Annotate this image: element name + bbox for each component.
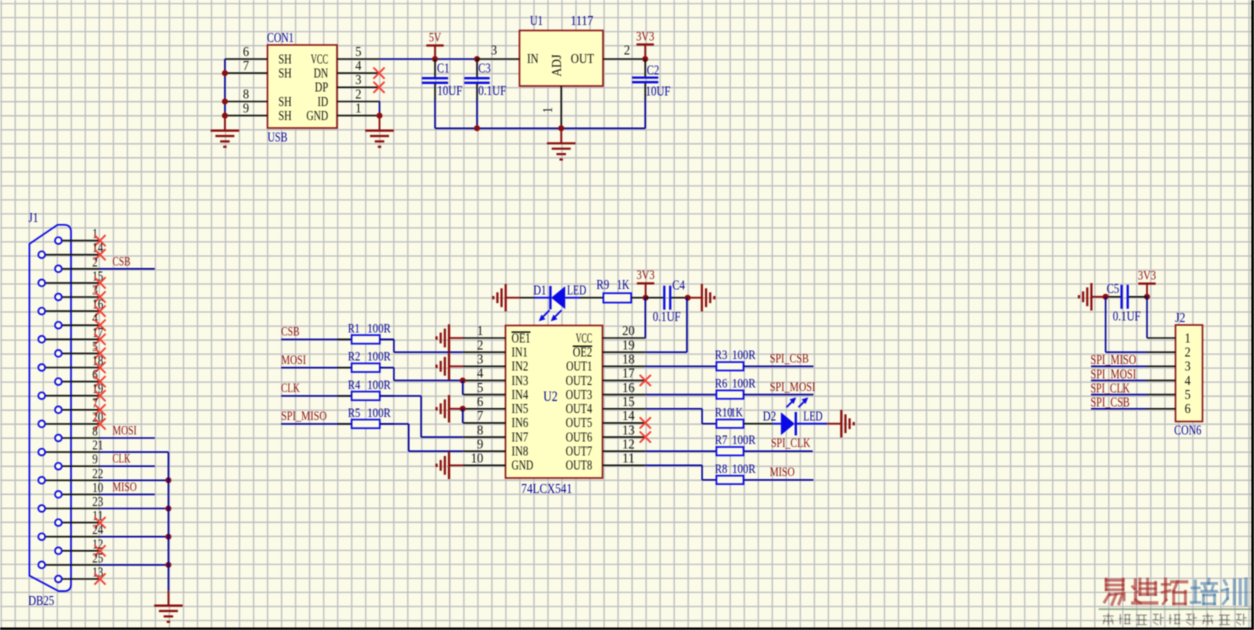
svg-text:CLK: CLK bbox=[113, 452, 131, 466]
svg-text:6: 6 bbox=[477, 394, 484, 409]
svg-text:DP: DP bbox=[315, 80, 328, 95]
svg-text:2: 2 bbox=[92, 254, 98, 269]
svg-text:2: 2 bbox=[624, 43, 630, 58]
svg-text:8: 8 bbox=[243, 86, 249, 101]
svg-text:6: 6 bbox=[1185, 402, 1191, 417]
svg-text:100R: 100R bbox=[367, 406, 391, 420]
svg-text:SPI_MISO: SPI_MISO bbox=[1091, 352, 1137, 367]
svg-text:100R: 100R bbox=[367, 321, 391, 335]
svg-text:0.1UF: 0.1UF bbox=[1113, 308, 1141, 323]
svg-text:OUT1: OUT1 bbox=[566, 359, 592, 374]
svg-text:OUT7: OUT7 bbox=[566, 444, 593, 459]
svg-text:SPI_CSB: SPI_CSB bbox=[770, 351, 809, 366]
svg-text:1: 1 bbox=[92, 226, 98, 241]
svg-text:OUT: OUT bbox=[571, 51, 594, 66]
svg-text:LED: LED bbox=[567, 283, 586, 298]
svg-text:12: 12 bbox=[622, 436, 635, 451]
svg-text:19: 19 bbox=[622, 337, 635, 352]
svg-text:8: 8 bbox=[477, 422, 484, 437]
svg-text:MISO: MISO bbox=[113, 480, 137, 494]
svg-text:IN1: IN1 bbox=[512, 344, 528, 359]
svg-text:5: 5 bbox=[1185, 388, 1191, 403]
svg-text:IN2: IN2 bbox=[512, 359, 529, 374]
svg-text:2: 2 bbox=[477, 337, 483, 352]
svg-text:R5: R5 bbox=[348, 406, 360, 420]
svg-text:OUT6: OUT6 bbox=[566, 429, 593, 444]
svg-text:SPI_CSB: SPI_CSB bbox=[1091, 395, 1130, 410]
svg-text:LED: LED bbox=[803, 408, 822, 423]
svg-text:6: 6 bbox=[243, 44, 249, 59]
svg-text:100R: 100R bbox=[367, 378, 391, 392]
svg-text:J2: J2 bbox=[1175, 310, 1185, 325]
svg-text:CSB: CSB bbox=[281, 325, 299, 339]
svg-text:4: 4 bbox=[477, 366, 484, 381]
svg-text:10UF: 10UF bbox=[437, 83, 462, 98]
svg-text:5: 5 bbox=[477, 380, 484, 395]
svg-text:100R: 100R bbox=[732, 377, 756, 391]
svg-text:IN: IN bbox=[527, 51, 539, 66]
svg-text:DN: DN bbox=[314, 65, 329, 80]
svg-text:SPI_MOSI: SPI_MOSI bbox=[770, 379, 816, 394]
svg-text:MISO: MISO bbox=[770, 464, 795, 479]
svg-text:SH: SH bbox=[278, 51, 292, 66]
svg-text:1K: 1K bbox=[617, 277, 630, 292]
svg-text:U2: U2 bbox=[543, 389, 557, 405]
svg-text:OUT2: OUT2 bbox=[566, 373, 593, 388]
svg-text:1: 1 bbox=[540, 107, 555, 113]
svg-text:13: 13 bbox=[622, 422, 635, 437]
svg-text:20: 20 bbox=[622, 323, 635, 338]
svg-text:IN5: IN5 bbox=[512, 401, 529, 416]
svg-text:MOSI: MOSI bbox=[113, 424, 137, 438]
svg-text:16: 16 bbox=[622, 380, 635, 395]
svg-text:OUT8: OUT8 bbox=[566, 458, 593, 473]
svg-text:C3: C3 bbox=[478, 61, 491, 76]
svg-text:SH: SH bbox=[278, 94, 292, 109]
svg-text:1: 1 bbox=[477, 323, 483, 338]
svg-text:CON6: CON6 bbox=[1174, 422, 1201, 437]
svg-text:ADJ: ADJ bbox=[549, 54, 564, 76]
svg-text:0.1UF: 0.1UF bbox=[478, 83, 506, 98]
svg-text:USB: USB bbox=[268, 130, 288, 145]
svg-text:7: 7 bbox=[477, 408, 484, 423]
svg-text:SH: SH bbox=[278, 108, 292, 123]
svg-text:2: 2 bbox=[355, 86, 361, 101]
svg-text:R1: R1 bbox=[348, 321, 360, 335]
svg-text:ID: ID bbox=[317, 94, 328, 109]
svg-text:5V: 5V bbox=[429, 29, 442, 44]
svg-text:CON1: CON1 bbox=[267, 30, 294, 45]
svg-text:14: 14 bbox=[622, 408, 635, 423]
svg-text:100R: 100R bbox=[732, 462, 756, 476]
svg-text:R2: R2 bbox=[348, 350, 360, 364]
svg-text:3V3: 3V3 bbox=[636, 28, 654, 43]
svg-text:0.1UF: 0.1UF bbox=[653, 309, 681, 324]
svg-text:R9: R9 bbox=[596, 277, 609, 292]
svg-text:24: 24 bbox=[92, 522, 103, 537]
svg-text:8: 8 bbox=[92, 424, 98, 439]
svg-text:10: 10 bbox=[471, 451, 484, 466]
svg-text:J1: J1 bbox=[28, 210, 38, 225]
svg-text:GND: GND bbox=[306, 108, 328, 123]
svg-text:C4: C4 bbox=[672, 277, 685, 292]
svg-text:2: 2 bbox=[1185, 346, 1191, 361]
svg-text:CSB: CSB bbox=[113, 254, 131, 268]
svg-text:IN8: IN8 bbox=[512, 444, 529, 459]
svg-text:4: 4 bbox=[1185, 374, 1191, 389]
svg-text:1: 1 bbox=[1185, 331, 1191, 346]
svg-text:R8: R8 bbox=[715, 462, 727, 476]
svg-text:3: 3 bbox=[1185, 360, 1191, 375]
svg-text:7: 7 bbox=[243, 58, 249, 73]
svg-text:17: 17 bbox=[622, 366, 635, 381]
svg-text:SH: SH bbox=[278, 65, 292, 80]
svg-text:SPI_CLK: SPI_CLK bbox=[771, 435, 811, 450]
svg-text:100R: 100R bbox=[367, 350, 391, 364]
svg-text:3: 3 bbox=[477, 352, 484, 367]
svg-text:IN3: IN3 bbox=[512, 373, 529, 388]
svg-text:OUT4: OUT4 bbox=[566, 401, 593, 416]
svg-text:SPI_MOSI: SPI_MOSI bbox=[1091, 366, 1137, 381]
svg-text:100R: 100R bbox=[732, 348, 756, 362]
svg-text:IN6: IN6 bbox=[512, 415, 529, 430]
svg-text:R4: R4 bbox=[348, 378, 361, 392]
svg-text:IN4: IN4 bbox=[512, 387, 529, 402]
svg-text:18: 18 bbox=[622, 352, 635, 367]
svg-text:R3: R3 bbox=[715, 348, 727, 362]
svg-text:3: 3 bbox=[355, 72, 361, 87]
svg-text:IN7: IN7 bbox=[512, 429, 529, 444]
svg-text:D2: D2 bbox=[763, 408, 776, 423]
svg-text:100R: 100R bbox=[732, 433, 756, 447]
svg-text:MOSI: MOSI bbox=[281, 353, 306, 367]
svg-text:U1: U1 bbox=[530, 13, 543, 28]
svg-text:11: 11 bbox=[622, 451, 635, 466]
svg-text:DB25: DB25 bbox=[28, 593, 54, 608]
svg-text:10: 10 bbox=[92, 480, 103, 495]
svg-text:C1: C1 bbox=[437, 61, 450, 76]
svg-text:9: 9 bbox=[92, 452, 98, 467]
svg-text:15: 15 bbox=[622, 394, 635, 409]
svg-text:74LCX541: 74LCX541 bbox=[521, 482, 572, 497]
svg-text:4: 4 bbox=[355, 58, 361, 73]
svg-text:3V3: 3V3 bbox=[637, 267, 655, 282]
svg-text:VCC: VCC bbox=[576, 330, 593, 345]
svg-text:21: 21 bbox=[92, 438, 103, 453]
svg-text:GND: GND bbox=[512, 458, 534, 473]
svg-text:R7: R7 bbox=[715, 433, 727, 447]
svg-text:CLK: CLK bbox=[281, 381, 300, 395]
svg-text:SPI_CLK: SPI_CLK bbox=[1091, 381, 1131, 396]
svg-text:VCC: VCC bbox=[311, 51, 329, 66]
svg-text:D1: D1 bbox=[533, 283, 546, 298]
svg-text:C5: C5 bbox=[1107, 281, 1120, 296]
svg-text:SPI_MISO: SPI_MISO bbox=[281, 409, 327, 423]
svg-text:3V3: 3V3 bbox=[1138, 267, 1156, 282]
svg-text:10UF: 10UF bbox=[646, 84, 671, 99]
svg-text:OUT5: OUT5 bbox=[566, 415, 593, 430]
svg-text:OUT3: OUT3 bbox=[566, 387, 593, 402]
svg-text:C2: C2 bbox=[647, 63, 660, 78]
svg-text:22: 22 bbox=[92, 466, 103, 481]
svg-text:25: 25 bbox=[92, 550, 103, 565]
svg-text:9: 9 bbox=[477, 436, 484, 451]
svg-text:23: 23 bbox=[92, 494, 103, 509]
svg-text:5: 5 bbox=[355, 44, 361, 59]
svg-text:1: 1 bbox=[355, 100, 361, 115]
svg-text:R6: R6 bbox=[715, 377, 727, 391]
svg-text:1117: 1117 bbox=[571, 13, 594, 28]
svg-text:1K: 1K bbox=[731, 406, 743, 420]
svg-text:9: 9 bbox=[243, 100, 249, 115]
svg-text:3: 3 bbox=[491, 43, 497, 58]
